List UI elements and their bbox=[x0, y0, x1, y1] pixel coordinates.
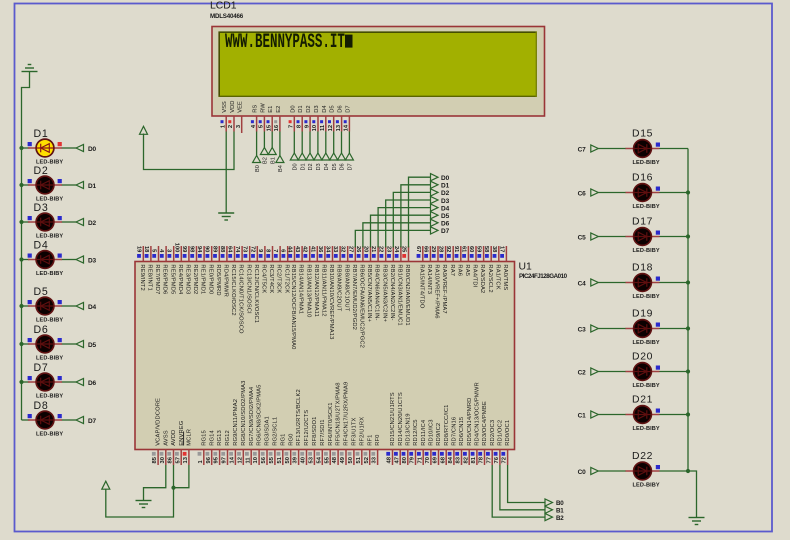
svg-text:71: 71 bbox=[417, 456, 423, 463]
svg-text:D4: D4 bbox=[322, 105, 328, 113]
svg-text:VDD: VDD bbox=[230, 101, 236, 113]
svg-text:D17: D17 bbox=[632, 217, 653, 228]
svg-text:D5: D5 bbox=[441, 213, 450, 220]
svg-text:RB2/CN4/AN2/C2IN-: RB2/CN4/AN2/C2IN- bbox=[389, 264, 395, 320]
svg-text:74: 74 bbox=[234, 246, 240, 253]
svg-text:RE7/PMD7: RE7/PMD7 bbox=[154, 264, 160, 294]
svg-text:34: 34 bbox=[325, 246, 331, 253]
svg-text:D1: D1 bbox=[300, 163, 306, 170]
svg-text:100: 100 bbox=[173, 243, 179, 253]
svg-text:RB0/CN2/AN0/EMUD1: RB0/CN2/AN0/EMUD1 bbox=[404, 264, 410, 325]
svg-text:58: 58 bbox=[483, 246, 489, 253]
svg-text:B2: B2 bbox=[556, 515, 564, 522]
svg-text:89: 89 bbox=[211, 246, 217, 253]
svg-text:B2: B2 bbox=[263, 157, 269, 164]
svg-text:RE2/PMD2: RE2/PMD2 bbox=[192, 264, 198, 294]
svg-text:D22: D22 bbox=[632, 451, 653, 462]
svg-text:RF8/SDO1: RF8/SDO1 bbox=[312, 416, 318, 445]
svg-text:28: 28 bbox=[438, 246, 444, 253]
svg-text:30: 30 bbox=[160, 457, 166, 463]
svg-text:LED-BIBY: LED-BIBY bbox=[633, 482, 660, 488]
svg-text:VCAP/VDDCORE: VCAP/VDDCORE bbox=[156, 398, 162, 446]
svg-text:RB3/CN5/AN3/C2IN+: RB3/CN5/AN3/C2IN+ bbox=[381, 264, 387, 322]
svg-text:RG14: RG14 bbox=[209, 430, 215, 446]
svg-text:52: 52 bbox=[364, 457, 370, 463]
svg-text:RC4/T5CK: RC4/T5CK bbox=[261, 264, 267, 293]
svg-text:RD1/OC2: RD1/OC2 bbox=[498, 420, 504, 446]
svg-text:LED-BIBY: LED-BIBY bbox=[633, 294, 660, 300]
svg-text:RC3/T4CK: RC3/T4CK bbox=[268, 264, 274, 293]
svg-text:RF7/SDI1: RF7/SDI1 bbox=[320, 419, 326, 445]
svg-text:RD15/CN21/U1RTS: RD15/CN21/U1RTS bbox=[390, 392, 396, 446]
svg-text:AVDD: AVDD bbox=[171, 430, 177, 446]
svg-text:RF2/U1RX: RF2/U1RX bbox=[359, 417, 365, 446]
svg-text:79: 79 bbox=[410, 456, 416, 463]
svg-text:15: 15 bbox=[266, 124, 272, 131]
svg-text:RW: RW bbox=[260, 103, 266, 113]
svg-text:32: 32 bbox=[340, 246, 346, 252]
svg-text:38: 38 bbox=[491, 246, 497, 253]
svg-text:70: 70 bbox=[425, 457, 431, 463]
svg-text:RD2/OC3: RD2/OC3 bbox=[490, 420, 496, 446]
svg-text:42: 42 bbox=[302, 246, 308, 252]
svg-text:RA14/INT3: RA14/INT3 bbox=[426, 264, 432, 294]
svg-text:D7: D7 bbox=[88, 418, 96, 425]
svg-text:RA6: RA6 bbox=[456, 264, 462, 276]
svg-text:RF13/U2RTS/BCLK2: RF13/U2RTS/BCLK2 bbox=[296, 389, 302, 446]
svg-text:D0: D0 bbox=[290, 105, 296, 112]
svg-text:27: 27 bbox=[347, 246, 353, 252]
svg-text:10: 10 bbox=[253, 457, 259, 463]
svg-text:D16: D16 bbox=[632, 173, 653, 184]
svg-text:RG15: RG15 bbox=[201, 430, 207, 446]
svg-text:80: 80 bbox=[402, 457, 408, 463]
svg-text:55: 55 bbox=[324, 456, 330, 463]
svg-text:LED-BIBY: LED-BIBY bbox=[36, 355, 63, 361]
svg-text:29: 29 bbox=[430, 246, 436, 253]
svg-text:D4: D4 bbox=[88, 304, 96, 311]
svg-text:19: 19 bbox=[135, 246, 141, 253]
svg-text:RG13: RG13 bbox=[217, 430, 223, 446]
svg-text:LED-BIBY: LED-BIBY bbox=[633, 248, 660, 254]
svg-text:72: 72 bbox=[249, 246, 255, 252]
svg-text:D21: D21 bbox=[632, 395, 653, 406]
svg-text:84: 84 bbox=[448, 456, 454, 463]
svg-text:C4: C4 bbox=[578, 281, 586, 288]
svg-text:RB4/CN6/AN4/C1IN-: RB4/CN6/AN4/C1IN- bbox=[374, 264, 380, 320]
svg-text:RB13/AN13/PMA10: RB13/AN13/PMA10 bbox=[305, 264, 311, 317]
svg-text:98: 98 bbox=[189, 246, 195, 253]
svg-text:D0: D0 bbox=[293, 163, 299, 170]
svg-text:RF5/CN18/U2TX/PMA8: RF5/CN18/U2TX/PMA8 bbox=[336, 382, 342, 445]
svg-text:D1: D1 bbox=[298, 105, 304, 112]
svg-text:73: 73 bbox=[242, 246, 248, 253]
svg-text:B0: B0 bbox=[556, 500, 564, 507]
svg-text:E1: E1 bbox=[268, 106, 274, 113]
svg-text:49: 49 bbox=[340, 456, 346, 463]
svg-text:RB7/AN7/EMUD2/PGD2: RB7/AN7/EMUD2/PGD2 bbox=[351, 264, 357, 330]
svg-text:12: 12 bbox=[237, 457, 243, 463]
svg-text:LED-BIBY: LED-BIBY bbox=[633, 204, 660, 210]
svg-text:C5: C5 bbox=[578, 235, 586, 242]
svg-text:86: 86 bbox=[168, 456, 174, 463]
svg-text:RF1: RF1 bbox=[367, 434, 373, 445]
svg-text:99: 99 bbox=[181, 246, 187, 253]
svg-text:RE5/PMD5: RE5/PMD5 bbox=[169, 264, 175, 294]
svg-text:LED-BIBY: LED-BIBY bbox=[633, 340, 660, 346]
svg-text:D1: D1 bbox=[88, 183, 96, 190]
svg-text:18: 18 bbox=[143, 246, 149, 253]
svg-text:78: 78 bbox=[479, 456, 485, 463]
svg-text:33: 33 bbox=[332, 246, 338, 253]
svg-text:43: 43 bbox=[294, 246, 300, 253]
svg-text:7: 7 bbox=[289, 125, 295, 128]
svg-text:55: 55 bbox=[269, 456, 275, 463]
svg-text:RC13/CN1/SOSCI: RC13/CN1/SOSCI bbox=[245, 264, 251, 314]
svg-text:D2: D2 bbox=[441, 190, 450, 197]
svg-text:53: 53 bbox=[309, 456, 315, 463]
svg-text:82: 82 bbox=[463, 457, 469, 463]
svg-text:13: 13 bbox=[183, 456, 189, 463]
svg-text:D8: D8 bbox=[34, 400, 49, 412]
svg-text:D2: D2 bbox=[308, 163, 314, 170]
svg-text:RF3/U1TX: RF3/U1TX bbox=[352, 417, 358, 445]
svg-text:D3: D3 bbox=[88, 258, 96, 265]
svg-text:RF0: RF0 bbox=[375, 434, 381, 445]
svg-text:RB10/AN10/CVREF/PMA13: RB10/AN10/CVREF/PMA13 bbox=[328, 264, 334, 339]
svg-text:50: 50 bbox=[285, 457, 291, 463]
svg-text:RE9/INT2: RE9/INT2 bbox=[139, 264, 145, 290]
svg-text:RG3/SDA1: RG3/SDA1 bbox=[265, 416, 271, 446]
svg-text:97: 97 bbox=[222, 457, 228, 463]
svg-text:D20: D20 bbox=[632, 352, 653, 363]
svg-text:95: 95 bbox=[214, 456, 220, 463]
svg-text:RD14/CN20/U1CTS: RD14/CN20/U1CTS bbox=[398, 392, 404, 446]
svg-text:RA5: RA5 bbox=[464, 264, 470, 276]
svg-text:RE0/PMD0: RE0/PMD0 bbox=[207, 264, 213, 294]
svg-text:D6: D6 bbox=[34, 324, 49, 336]
svg-text:RD10/IC3: RD10/IC3 bbox=[429, 419, 435, 445]
svg-text:D2: D2 bbox=[34, 165, 49, 177]
svg-text:RF4/CN17/U2RX/PMA9: RF4/CN17/U2RX/PMA9 bbox=[344, 382, 350, 446]
svg-text:D5: D5 bbox=[330, 105, 336, 112]
svg-text:B0: B0 bbox=[255, 165, 261, 172]
svg-text:D3: D3 bbox=[441, 198, 450, 205]
svg-text:RD11/IC4: RD11/IC4 bbox=[421, 419, 427, 446]
svg-text:RD12/IC5: RD12/IC5 bbox=[413, 419, 419, 445]
svg-text:LED-BIBY: LED-BIBY bbox=[36, 271, 63, 277]
svg-text:RD3/OC4/PMBE: RD3/OC4/PMBE bbox=[482, 401, 488, 446]
svg-text:RE1/PMD1: RE1/PMD1 bbox=[200, 264, 206, 294]
svg-text:B1: B1 bbox=[556, 508, 564, 515]
svg-text:RB1/CN3/AN1/EMUC1: RB1/CN3/AN1/EMUC1 bbox=[397, 264, 403, 325]
svg-text:VEE: VEE bbox=[238, 101, 244, 113]
svg-text:12: 12 bbox=[328, 125, 334, 131]
svg-text:64: 64 bbox=[227, 246, 233, 253]
svg-text:VSS: VSS bbox=[222, 101, 228, 113]
svg-text:RS: RS bbox=[253, 105, 259, 113]
svg-text:72: 72 bbox=[502, 457, 508, 463]
svg-text:13: 13 bbox=[336, 124, 342, 131]
svg-text:D0: D0 bbox=[441, 175, 450, 182]
svg-text:RE8/INT1: RE8/INT1 bbox=[147, 264, 153, 290]
svg-text:RB9/AN9/C2OUT: RB9/AN9/C2OUT bbox=[336, 264, 342, 311]
svg-text:48: 48 bbox=[332, 456, 338, 463]
svg-text:LED-BIBY: LED-BIBY bbox=[633, 160, 660, 166]
svg-text:AVSS: AVSS bbox=[163, 430, 169, 446]
svg-text:C1: C1 bbox=[578, 413, 586, 420]
svg-text:16: 16 bbox=[274, 124, 280, 131]
svg-text:RG8/CN10/SDO2/PMA3: RG8/CN10/SDO2/PMA3 bbox=[241, 380, 247, 445]
svg-text:61: 61 bbox=[460, 246, 466, 253]
svg-text:D7: D7 bbox=[348, 163, 354, 170]
svg-text:PIC24FJ128GA010: PIC24FJ128GA010 bbox=[519, 273, 568, 280]
svg-text:D4: D4 bbox=[441, 205, 450, 212]
svg-text:RA1/TCK: RA1/TCK bbox=[494, 264, 500, 289]
svg-text:10: 10 bbox=[312, 125, 318, 131]
svg-text:D19: D19 bbox=[632, 309, 653, 320]
svg-text:D6: D6 bbox=[88, 380, 96, 387]
svg-text:D5: D5 bbox=[34, 286, 49, 298]
svg-text:RD5/PMRD: RD5/PMRD bbox=[215, 264, 221, 295]
svg-text:51: 51 bbox=[356, 456, 362, 463]
svg-text:RC2/T3CK: RC2/T3CK bbox=[276, 264, 282, 293]
svg-text:59: 59 bbox=[476, 246, 482, 253]
svg-text:LCD1: LCD1 bbox=[210, 1, 237, 12]
svg-text:RB15/CN12/OCFB/AN15/PMA0: RB15/CN12/OCFB/AN15/PMA0 bbox=[290, 264, 296, 349]
svg-text:RD13/CN19: RD13/CN19 bbox=[405, 413, 411, 445]
svg-text:RG1: RG1 bbox=[280, 434, 286, 446]
svg-text:C7: C7 bbox=[578, 147, 586, 154]
svg-text:11: 11 bbox=[245, 457, 251, 464]
svg-text:RC12/CN/CLKI/OSC1: RC12/CN/CLKI/OSC1 bbox=[253, 264, 259, 323]
svg-text:RD4/CN13/OC5/PMWR: RD4/CN13/OC5/PMWR bbox=[475, 382, 481, 446]
svg-text:LED-BIBY: LED-BIBY bbox=[633, 426, 660, 432]
svg-text:MCLR: MCLR bbox=[187, 429, 193, 446]
svg-text:RA10/VREF+/PMA6: RA10/VREF+/PMA6 bbox=[434, 264, 440, 318]
svg-text:69: 69 bbox=[433, 456, 439, 463]
svg-text:48: 48 bbox=[387, 456, 393, 463]
svg-text:LED-BIBY: LED-BIBY bbox=[36, 393, 63, 399]
svg-text:RG0: RG0 bbox=[288, 434, 294, 446]
svg-text:D6: D6 bbox=[338, 105, 344, 112]
svg-text:57: 57 bbox=[175, 457, 181, 463]
svg-text:LED-BIBY: LED-BIBY bbox=[633, 383, 660, 389]
svg-text:50: 50 bbox=[348, 457, 354, 463]
svg-text:C0: C0 bbox=[578, 469, 586, 476]
svg-text:RD4/PMWR: RD4/PMWR bbox=[223, 264, 229, 297]
svg-text:56: 56 bbox=[261, 456, 267, 463]
svg-text:D5: D5 bbox=[332, 163, 338, 170]
svg-text:39: 39 bbox=[293, 456, 299, 463]
svg-text:RB14/AN14/PMA1: RB14/AN14/PMA1 bbox=[298, 264, 304, 314]
svg-text:U1: U1 bbox=[519, 262, 533, 273]
svg-text:C3: C3 bbox=[578, 327, 586, 334]
svg-text:91: 91 bbox=[453, 246, 459, 253]
svg-text:LED-BIBY: LED-BIBY bbox=[36, 233, 63, 239]
svg-text:B4: B4 bbox=[278, 165, 284, 172]
svg-text:51: 51 bbox=[277, 456, 283, 463]
svg-text:D3: D3 bbox=[314, 105, 320, 112]
svg-text:96: 96 bbox=[206, 456, 212, 463]
svg-text:RB5/CN7/AN5/C1IN+: RB5/CN7/AN5/C1IN+ bbox=[366, 264, 372, 322]
svg-text:40: 40 bbox=[301, 457, 307, 463]
svg-text:MDLS40466: MDLS40466 bbox=[210, 13, 244, 20]
svg-text:RD5/CN14/PMRD: RD5/CN14/PMRD bbox=[467, 398, 473, 446]
svg-text:RE6/PMD6: RE6/PMD6 bbox=[162, 264, 168, 294]
svg-text:76: 76 bbox=[494, 456, 500, 463]
svg-text:RD9/IC2: RD9/IC2 bbox=[436, 423, 442, 446]
svg-text:RG9/CN11/PMA2: RG9/CN11/PMA2 bbox=[233, 399, 239, 446]
svg-text:RF6/INT0/SCK1: RF6/INT0/SCK1 bbox=[328, 402, 334, 445]
svg-text:88: 88 bbox=[219, 246, 225, 253]
svg-text:14: 14 bbox=[230, 456, 236, 463]
svg-text:D1: D1 bbox=[34, 128, 49, 140]
svg-text:RB6/OCFA/AN6/EMUC2/PGC2: RB6/OCFA/AN6/EMUC2/PGC2 bbox=[359, 264, 365, 348]
svg-text:17: 17 bbox=[498, 246, 504, 252]
svg-text:7: 7 bbox=[272, 249, 278, 252]
svg-text:D7: D7 bbox=[34, 362, 49, 374]
svg-text:90: 90 bbox=[204, 246, 210, 252]
svg-text:60: 60 bbox=[468, 246, 474, 252]
svg-text:14: 14 bbox=[344, 124, 350, 131]
svg-text:RF12/U2CTS: RF12/U2CTS bbox=[304, 410, 310, 446]
svg-text:67: 67 bbox=[415, 246, 421, 252]
svg-text:RB12/AN12/PMA11: RB12/AN12/PMA11 bbox=[313, 264, 319, 317]
svg-text:2: 2 bbox=[228, 125, 234, 128]
svg-text:RC14/CN0/T1CK/SOSCO: RC14/CN0/T1CK/SOSCO bbox=[238, 264, 244, 334]
svg-text:RC1/T2CK: RC1/T2CK bbox=[283, 264, 289, 293]
svg-text:RG7/CN9/SDI2/PMA4: RG7/CN9/SDI2/PMA4 bbox=[249, 386, 255, 446]
svg-text:RE3/PMD3: RE3/PMD3 bbox=[185, 264, 191, 294]
svg-text:D0: D0 bbox=[88, 146, 96, 153]
svg-text:D5: D5 bbox=[88, 342, 96, 349]
svg-text:85: 85 bbox=[152, 456, 158, 463]
svg-text:RA3/SDA2: RA3/SDA2 bbox=[479, 264, 485, 293]
svg-text:D2: D2 bbox=[306, 105, 312, 112]
svg-text:RA15/INT4/TDO: RA15/INT4/TDO bbox=[418, 264, 424, 308]
svg-text:D4: D4 bbox=[34, 240, 49, 252]
svg-text:RD8/RTCC/IC1: RD8/RTCC/IC1 bbox=[444, 405, 450, 446]
svg-text:D3: D3 bbox=[34, 202, 49, 214]
svg-text:C6: C6 bbox=[578, 191, 586, 198]
svg-text:RD6/CN15: RD6/CN15 bbox=[459, 417, 465, 446]
svg-text:36: 36 bbox=[317, 246, 323, 253]
svg-text:D7: D7 bbox=[345, 105, 351, 112]
svg-text:D18: D18 bbox=[632, 263, 653, 274]
svg-text:D6: D6 bbox=[340, 163, 346, 170]
svg-text:68: 68 bbox=[440, 456, 446, 463]
svg-text:81: 81 bbox=[471, 456, 477, 463]
svg-text:83: 83 bbox=[456, 456, 462, 463]
svg-text:41: 41 bbox=[309, 246, 315, 253]
svg-text:D1: D1 bbox=[441, 183, 450, 190]
svg-text:D2: D2 bbox=[88, 220, 96, 227]
svg-text:RA4/TDI: RA4/TDI bbox=[472, 264, 478, 287]
svg-text:33: 33 bbox=[372, 456, 378, 463]
svg-text:D4: D4 bbox=[324, 163, 330, 170]
svg-text:WWW.BENNYPASS.IT: WWW.BENNYPASS.IT bbox=[225, 32, 345, 55]
svg-text:RA2/SCL2: RA2/SCL2 bbox=[487, 264, 493, 292]
svg-text:RG6/CN8/SCK2/PMA5: RG6/CN8/SCK2/PMA5 bbox=[257, 384, 263, 445]
svg-text:77: 77 bbox=[486, 457, 492, 463]
svg-text:LED-BIBY: LED-BIBY bbox=[36, 431, 63, 437]
svg-text:C2: C2 bbox=[578, 370, 586, 377]
svg-text:94: 94 bbox=[196, 246, 202, 253]
svg-text:RA7: RA7 bbox=[449, 264, 455, 276]
svg-text:RG2/SCL1: RG2/SCL1 bbox=[273, 417, 279, 446]
svg-text:RD7/CN16: RD7/CN16 bbox=[452, 417, 458, 446]
svg-text:47: 47 bbox=[394, 457, 400, 463]
svg-text:D15: D15 bbox=[632, 129, 653, 140]
svg-text:LED-BIBY: LED-BIBY bbox=[36, 317, 63, 323]
svg-text:RA0/TMS: RA0/TMS bbox=[502, 264, 508, 290]
svg-text:44: 44 bbox=[287, 246, 293, 253]
svg-text:D7: D7 bbox=[441, 228, 450, 235]
svg-text:54: 54 bbox=[316, 456, 322, 463]
svg-text:D6: D6 bbox=[441, 221, 450, 228]
svg-text:RC15/CLKO/OSC2: RC15/CLKO/OSC2 bbox=[230, 264, 236, 315]
svg-text:11: 11 bbox=[320, 124, 326, 131]
svg-text:RB8/AN8/C1OUT: RB8/AN8/C1OUT bbox=[343, 264, 349, 311]
svg-text:E2: E2 bbox=[276, 106, 282, 113]
svg-text:RG12: RG12 bbox=[225, 430, 231, 446]
svg-text:RE4/PMD4: RE4/PMD4 bbox=[177, 264, 183, 295]
svg-text:RB11/AN11/PMA12: RB11/AN11/PMA12 bbox=[321, 264, 327, 316]
svg-text:92: 92 bbox=[445, 246, 451, 252]
svg-text:RD0/OC1: RD0/OC1 bbox=[505, 420, 511, 446]
svg-text:RA9/VREF-/PMA7: RA9/VREF-/PMA7 bbox=[441, 264, 447, 313]
svg-text:66: 66 bbox=[422, 246, 428, 253]
svg-text:D3: D3 bbox=[316, 163, 322, 170]
